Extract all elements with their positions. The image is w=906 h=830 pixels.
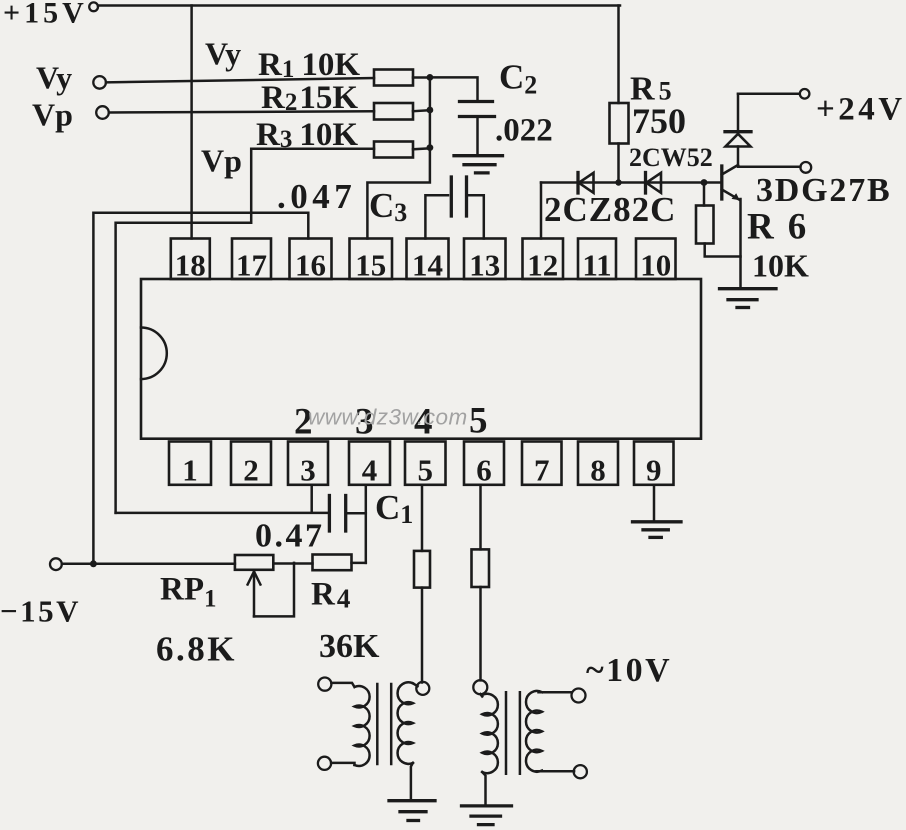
svg-text:5: 5 bbox=[469, 401, 488, 442]
terminal T2 out top bbox=[572, 689, 586, 703]
pin 2 bbox=[231, 442, 271, 488]
svg-text:.022: .022 bbox=[495, 113, 553, 149]
pin 4 bbox=[349, 442, 390, 488]
resistor on pin 6 bbox=[472, 549, 490, 587]
wire pin 6 drop bbox=[479, 485, 482, 550]
ground Q1 emitter bbox=[720, 289, 777, 308]
wire bus to C2 bbox=[430, 77, 478, 99]
svg-text:Vy: Vy bbox=[36, 60, 72, 96]
pin 14 bbox=[407, 239, 449, 283]
junction node R3 bus bbox=[427, 144, 434, 151]
svg-text:15: 15 bbox=[355, 248, 386, 283]
wire -15V rail bbox=[62, 563, 235, 566]
svg-text:2CZ82C: 2CZ82C bbox=[544, 190, 676, 229]
svg-text:12: 12 bbox=[527, 248, 558, 283]
terminal Vp bbox=[96, 106, 109, 119]
svg-text:Vy: Vy bbox=[205, 36, 241, 72]
svg-text:4: 4 bbox=[362, 453, 378, 488]
wire R1 to bus bbox=[413, 76, 430, 79]
svg-text:10K: 10K bbox=[752, 248, 809, 284]
terminal +24V bbox=[800, 89, 810, 99]
wire diode row bbox=[541, 181, 720, 184]
junction node R1 bus bbox=[427, 74, 434, 81]
svg-text:3: 3 bbox=[300, 453, 316, 488]
svg-text:6: 6 bbox=[476, 453, 492, 488]
svg-text:www.dz3w.com: www.dz3w.com bbox=[308, 405, 468, 430]
svg-text:R215K: R215K bbox=[261, 80, 358, 116]
capacitor C3 bbox=[425, 177, 483, 239]
svg-text:R110K: R110K bbox=[258, 47, 360, 83]
svg-text:14: 14 bbox=[412, 248, 443, 283]
svg-text:11: 11 bbox=[582, 248, 611, 283]
resistor on pin 5 bbox=[414, 551, 430, 588]
svg-text:6.8K: 6.8K bbox=[156, 630, 237, 669]
transistor Q1 3DG27B bbox=[722, 165, 740, 200]
wire collector node bbox=[738, 147, 800, 167]
pin 18 bbox=[171, 239, 210, 283]
svg-text:36K: 36K bbox=[319, 628, 380, 665]
terminal T1 secondary top bbox=[416, 682, 429, 695]
svg-text:~10V: ~10V bbox=[586, 652, 672, 689]
junction node R2 bus bbox=[427, 107, 434, 114]
pin 16 bbox=[290, 239, 332, 283]
svg-text:8: 8 bbox=[590, 453, 606, 488]
svg-text:7: 7 bbox=[534, 453, 550, 488]
svg-text:Vp: Vp bbox=[201, 143, 242, 179]
resistor R4 bbox=[313, 555, 366, 571]
wire Vp net to C1 bbox=[116, 512, 328, 515]
svg-text:9: 9 bbox=[646, 453, 662, 488]
resistor R5 bbox=[610, 103, 629, 144]
wire R3 to Vp net left rail bbox=[116, 149, 374, 513]
ground C2 bbox=[454, 156, 503, 173]
wire pin 3 drop bbox=[310, 485, 313, 512]
wire R2 to bus bbox=[413, 110, 430, 111]
pin 7 bbox=[522, 442, 562, 488]
wire to +24V bbox=[738, 93, 800, 96]
wire Vp to R2 bbox=[109, 111, 374, 112]
wire +15V rail bbox=[98, 4, 620, 7]
wire R5 to diode row bbox=[617, 144, 620, 183]
wire pin 6 to transformer bbox=[479, 587, 482, 680]
svg-text:2: 2 bbox=[243, 453, 259, 488]
svg-text:10: 10 bbox=[640, 248, 671, 283]
wire Vy to R1 bbox=[106, 78, 374, 82]
junction node R5 diode row bbox=[615, 179, 621, 185]
wire rail to R5 bbox=[617, 6, 620, 104]
pin 10 bbox=[636, 239, 676, 283]
junction node base R6 bbox=[701, 179, 708, 186]
IC body U1 bbox=[141, 279, 701, 439]
wire emitter to ground bbox=[739, 199, 742, 288]
diode D3 bbox=[725, 94, 751, 147]
svg-text:17: 17 bbox=[236, 248, 267, 283]
diode D1 2CZ82C bbox=[578, 173, 594, 194]
svg-text:+15V: +15V bbox=[3, 0, 88, 30]
svg-text:5: 5 bbox=[417, 453, 433, 488]
pin 3 bbox=[288, 442, 328, 488]
wire pin16 net to -15V rail bbox=[93, 213, 308, 564]
terminal -15V bbox=[50, 558, 62, 570]
capacitor C1 bbox=[329, 496, 365, 532]
wire pin 9 drop bbox=[653, 485, 656, 521]
pin 17 bbox=[232, 239, 271, 283]
wire pin 4 drop bbox=[365, 485, 368, 563]
pin 15 bbox=[350, 239, 393, 283]
wire pin 5 drop bbox=[421, 485, 424, 551]
diode D2 2CW52 bbox=[646, 173, 662, 194]
svg-text:0.47: 0.47 bbox=[255, 518, 325, 555]
pin 9 bbox=[634, 442, 674, 488]
svg-text:.047: .047 bbox=[277, 177, 356, 216]
svg-text:18: 18 bbox=[175, 248, 206, 283]
svg-text:Vp: Vp bbox=[32, 97, 73, 133]
ground pin 9 bbox=[633, 522, 682, 538]
capacitor C2 bbox=[460, 102, 495, 155]
svg-text:3DG27B: 3DG27B bbox=[756, 172, 891, 209]
wire rail to pin 18 bbox=[190, 6, 193, 239]
resistor R3 bbox=[374, 142, 413, 158]
resistor R2 bbox=[374, 103, 413, 120]
pin 11 bbox=[578, 239, 616, 283]
svg-text:+24V: +24V bbox=[816, 92, 906, 128]
svg-text:13: 13 bbox=[469, 248, 500, 283]
resistor R1 bbox=[374, 70, 413, 86]
wire summing bus to pin 15 bbox=[367, 77, 430, 238]
terminal output bbox=[800, 162, 811, 173]
wire RP1 to R4 bbox=[273, 562, 312, 565]
junction node -15V bbox=[90, 560, 97, 567]
pin 6 bbox=[464, 442, 504, 488]
ground T2 bbox=[462, 806, 512, 825]
svg-text:16: 16 bbox=[295, 248, 326, 283]
wire R3 to bus bbox=[413, 148, 430, 149]
wire pin 12 riser bbox=[540, 183, 543, 239]
pin 8 bbox=[578, 442, 618, 488]
IC notch bbox=[141, 328, 167, 380]
pin 5 bbox=[405, 442, 446, 488]
svg-text:750: 750 bbox=[632, 101, 686, 141]
pin 13 bbox=[464, 239, 506, 283]
terminal T2 out bottom bbox=[574, 765, 587, 778]
transformer T2 bbox=[473, 680, 574, 805]
svg-text:1: 1 bbox=[182, 453, 198, 488]
svg-text:2CW52: 2CW52 bbox=[629, 143, 713, 172]
potentiometer RP1 bbox=[235, 555, 294, 616]
pin 12 bbox=[523, 239, 564, 283]
wire pin 5 to transformer bbox=[421, 588, 424, 683]
svg-text:−15V: −15V bbox=[0, 594, 81, 629]
ground T1 bbox=[389, 801, 435, 821]
resistor R6 bbox=[696, 183, 741, 257]
pin 1 bbox=[169, 442, 211, 488]
transformer T1 bbox=[318, 678, 418, 801]
terminal +15V bbox=[89, 2, 98, 11]
terminal Vy bbox=[93, 76, 106, 89]
